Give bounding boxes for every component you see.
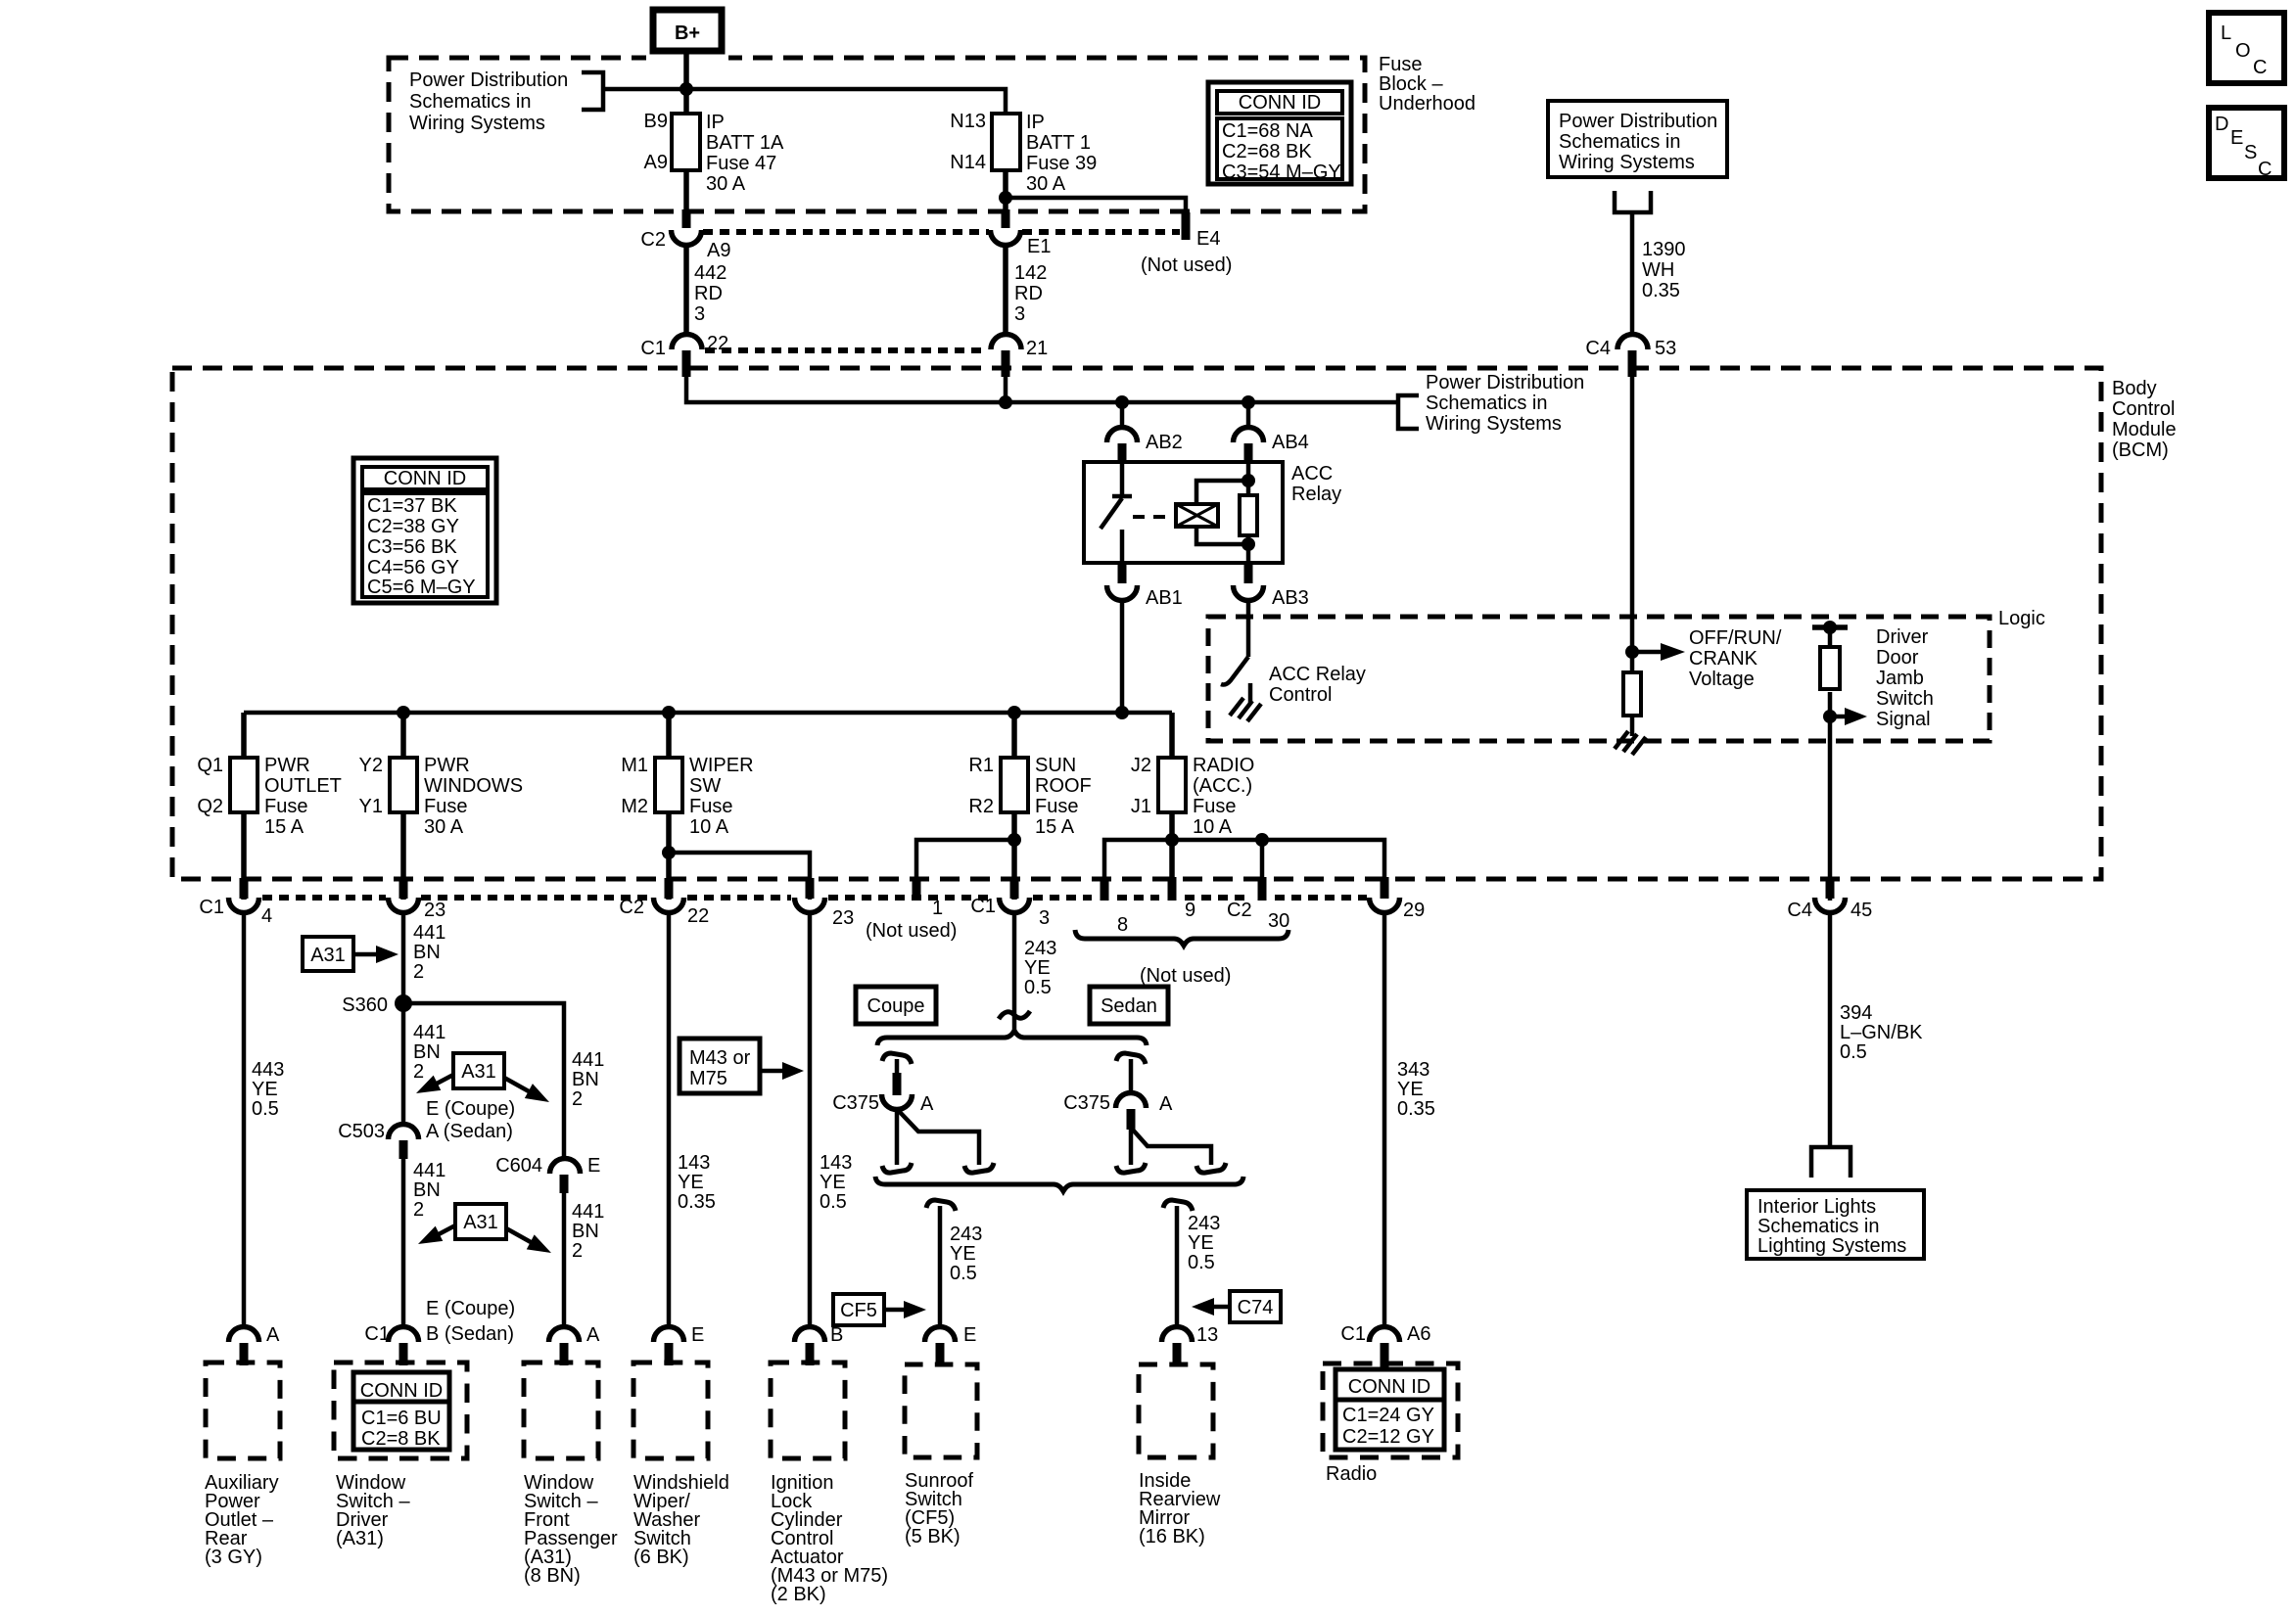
wire: coupe branch: [895, 1059, 900, 1094]
connector C1 pin 3: [970, 896, 1050, 929]
svg-text:CF5: CF5: [840, 1300, 877, 1321]
pin stub C4/45: [1826, 878, 1835, 899]
svg-text:(6 BK): (6 BK): [633, 1547, 689, 1568]
pin stub AB3: [1244, 563, 1253, 583]
fuse: WIPER SW 10 A: [621, 755, 753, 838]
svg-text:343: 343: [1397, 1059, 1429, 1081]
connector pin B (ignition actuator): [794, 1324, 843, 1346]
wire: B+ down to fuse 47: [683, 51, 689, 114]
svg-text:C1: C1: [640, 338, 666, 359]
svg-text:9: 9: [1185, 900, 1195, 921]
svg-text:YE: YE: [820, 1172, 846, 1193]
CF5 reference box with arrow: [833, 1294, 926, 1325]
svg-text:2: 2: [413, 1199, 424, 1221]
svg-text:C2: C2: [619, 897, 644, 918]
svg-text:C375: C375: [1063, 1092, 1110, 1114]
svg-text:0.5: 0.5: [950, 1263, 977, 1284]
svg-text:J2: J2: [1131, 755, 1151, 776]
node: sunroof branch junction: [1007, 833, 1021, 847]
LOC legend box: [2209, 13, 2284, 83]
arrow: driver door jamb switch signal: [1830, 708, 1867, 725]
pin stub 29: [1381, 877, 1389, 899]
svg-text:Power Distribution: Power Distribution: [1559, 111, 1717, 132]
svg-text:C2=8 BK: C2=8 BK: [361, 1428, 441, 1450]
wire: bus to AB2: [1120, 402, 1125, 430]
svg-text:M2: M2: [621, 796, 648, 817]
wire 441 BN 2 (driver switch): [403, 1155, 445, 1328]
label: body control module (BCM): [2112, 378, 2177, 461]
svg-text:AB3: AB3: [1272, 587, 1309, 609]
node: off/run/crank tap: [1625, 645, 1639, 659]
svg-text:C2=68 BK: C2=68 BK: [1222, 141, 1312, 162]
svg-text:(A31): (A31): [336, 1528, 384, 1549]
body control module dashed border: [172, 368, 2101, 879]
svg-text:A31: A31: [310, 945, 346, 966]
svg-text:30 A: 30 A: [1026, 173, 1066, 195]
svg-text:B+: B+: [675, 23, 700, 44]
svg-text:(8 BN): (8 BN): [524, 1565, 581, 1587]
svg-text:ACC Relay: ACC Relay: [1269, 664, 1366, 685]
svg-text:Signal: Signal: [1876, 709, 1931, 730]
svg-text:Fuse 39: Fuse 39: [1026, 153, 1097, 174]
svg-text:C4: C4: [1787, 900, 1812, 921]
ACC relay control switch blade: [1221, 657, 1248, 685]
svg-text:YE: YE: [678, 1172, 704, 1193]
svg-text:Block –: Block –: [1379, 73, 1443, 95]
sunroof switch (coupe): common leg: [895, 1109, 900, 1165]
svg-text:Fuse: Fuse: [1379, 54, 1422, 75]
svg-text:Fuse: Fuse: [1193, 796, 1236, 817]
svg-text:Coupe: Coupe: [867, 995, 925, 1017]
logic dashed box: [1208, 617, 1990, 741]
svg-text:Power Distribution: Power Distribution: [409, 69, 568, 91]
pin stub AB2: [1118, 443, 1127, 463]
svg-text:J1: J1: [1131, 796, 1151, 817]
svg-text:15 A: 15 A: [1035, 816, 1075, 838]
pin stub AB4: [1244, 443, 1253, 463]
pin stub E1: [1002, 209, 1010, 228]
svg-text:YE: YE: [1397, 1079, 1424, 1100]
svg-text:A: A: [920, 1093, 934, 1115]
svg-text:441: 441: [572, 1201, 604, 1223]
dotted connector pitch line C2-E1-E4: [703, 229, 989, 235]
svg-text:Fuse: Fuse: [1035, 796, 1078, 817]
fuse 47: IP BATT 1A 30 A: [644, 111, 784, 195]
svg-text:(ACC.): (ACC.): [1193, 775, 1252, 797]
connector C375 pin A (coupe): [832, 1092, 934, 1115]
relay resistor: [1240, 495, 1257, 535]
svg-text:C74: C74: [1238, 1297, 1274, 1318]
svg-text:(BCM): (BCM): [2112, 439, 2169, 461]
wire: bus down to RADIO fuse: [1169, 713, 1175, 758]
svg-text:Wiring Systems: Wiring Systems: [409, 113, 545, 134]
svg-text:441: 441: [572, 1049, 604, 1071]
svg-text:B (Sedan): B (Sedan): [426, 1323, 514, 1345]
svg-text:CONN ID: CONN ID: [1348, 1376, 1430, 1398]
fuse block - underhood dashed border: [389, 58, 1365, 211]
svg-text:C: C: [2253, 57, 2267, 78]
wire 442 RD 3: [686, 246, 726, 336]
wire 243 YE 0.5 to inside rearview mirror: [1177, 1206, 1220, 1328]
svg-text:13: 13: [1196, 1324, 1218, 1346]
node: bus junction AB4: [1242, 395, 1255, 409]
node: fuse 39 output junction to E4: [999, 191, 1012, 205]
pin stub E4: [1182, 212, 1191, 240]
node: B+ feed junction: [679, 82, 693, 96]
svg-text:3: 3: [1014, 303, 1025, 325]
svg-text:243: 243: [1188, 1213, 1220, 1234]
wire 441 BN 2 (right branch): [572, 1049, 604, 1110]
svg-text:23: 23: [832, 907, 854, 929]
svg-text:0.5: 0.5: [252, 1098, 279, 1120]
connector C503: [338, 1121, 418, 1142]
svg-text:CONN ID: CONN ID: [1239, 92, 1321, 114]
label: E4 (not used): [1141, 228, 1232, 276]
svg-text:D: D: [2215, 114, 2228, 135]
svg-text:443: 443: [252, 1059, 284, 1081]
svg-text:Q2: Q2: [197, 796, 223, 817]
svg-text:30 A: 30 A: [424, 816, 464, 838]
svg-text:0.35: 0.35: [1642, 280, 1680, 301]
svg-text:C5=6 M–GY: C5=6 M–GY: [367, 577, 476, 598]
svg-text:YE: YE: [252, 1079, 278, 1100]
wire: coil top link: [1196, 481, 1248, 504]
svg-text:3: 3: [694, 303, 705, 325]
node: door jamb signal tap: [1823, 710, 1837, 723]
svg-text:A: A: [586, 1324, 600, 1346]
svg-text:AB2: AB2: [1146, 432, 1183, 453]
pin stub ignition actuator: [806, 1343, 815, 1365]
svg-text:C2: C2: [1227, 900, 1252, 921]
svg-text:30: 30: [1268, 910, 1289, 932]
svg-text:N14: N14: [950, 152, 986, 173]
connector E1: [991, 230, 1052, 257]
dotted pitch line 3-8-9-30-29: [1033, 895, 1092, 901]
svg-text:2: 2: [572, 1240, 583, 1262]
splice tick (mirror leg top): [1163, 1200, 1193, 1211]
connector C604: [495, 1155, 600, 1177]
relay switch blade: [1101, 498, 1122, 529]
svg-text:(2 BK): (2 BK): [771, 1584, 826, 1605]
relay mechanical link (dashed): [1133, 515, 1174, 519]
off-page bracket: power distribution schematics (top left): [582, 72, 603, 110]
svg-text:2: 2: [413, 961, 424, 983]
dotted pitch line 22 to 23: [687, 895, 791, 901]
connector pin 23 (ignition): [794, 898, 854, 929]
svg-text:Underhood: Underhood: [1379, 93, 1476, 115]
svg-text:(5 BK): (5 BK): [905, 1526, 961, 1548]
A31 reference box with two arrows (lower): [414, 1204, 555, 1261]
svg-text:441: 441: [413, 922, 445, 944]
svg-text:C1=6 BU: C1=6 BU: [361, 1408, 442, 1429]
svg-text:Wiring Systems: Wiring Systems: [1426, 413, 1562, 435]
svg-text:YE: YE: [1188, 1232, 1214, 1254]
svg-text:Fuse: Fuse: [424, 796, 467, 817]
connector pin A (aux outlet): [229, 1324, 281, 1346]
svg-text:Switch: Switch: [1876, 688, 1934, 710]
splice tick (sedan branch top): [1116, 1053, 1146, 1064]
wire 143 YE 0.35 (windshield wiper/washer switch): [669, 913, 716, 1328]
power distribution schematics reference box (top right): [1548, 101, 1727, 177]
svg-text:C1=68 NA: C1=68 NA: [1222, 120, 1313, 142]
pin stub 1 (not used): [913, 877, 921, 900]
svg-text:C1=24 GY: C1=24 GY: [1342, 1405, 1434, 1426]
wire 243 YE 0.5 (sunroof feed): [1014, 913, 1056, 1031]
svg-text:C2=12 GY: C2=12 GY: [1342, 1426, 1434, 1448]
battery feed B+ terminal box: [646, 10, 728, 65]
svg-text:O: O: [2235, 40, 2251, 62]
wire 443 YE 0.5 (aux power outlet): [244, 913, 284, 1328]
node: branch junction 30: [1255, 833, 1269, 847]
svg-text:C503: C503: [338, 1121, 385, 1142]
component: window switch - driver with conn id: [334, 1363, 467, 1549]
svg-text:R1: R1: [968, 755, 994, 776]
sunroof switch (coupe): blade to output: [897, 1109, 979, 1165]
relay switch lower contact: [1120, 530, 1125, 563]
svg-text:BN: BN: [572, 1221, 599, 1242]
svg-text:Jamb: Jamb: [1876, 668, 1924, 689]
svg-text:M43 or: M43 or: [689, 1047, 751, 1069]
svg-text:SW: SW: [689, 775, 721, 797]
svg-text:S: S: [2244, 142, 2257, 163]
svg-text:Driver: Driver: [1876, 626, 1929, 648]
svg-text:C4: C4: [1585, 338, 1611, 359]
label: ACC Relay Control: [1269, 664, 1366, 706]
connector C1 pin B (Sedan): [364, 1323, 514, 1345]
Coupe variant box: [856, 987, 936, 1024]
svg-text:WH: WH: [1642, 259, 1674, 281]
label: OFF/RUN/CRANK Voltage: [1689, 627, 1782, 690]
dotted connector pitch line 22-21: [705, 347, 988, 353]
relay coil (solid-state box with X): [1176, 504, 1218, 527]
wire: WIPER SW fuse output: [666, 812, 672, 900]
connector AB3: [1234, 585, 1309, 609]
pin stub wiper switch: [665, 1343, 674, 1365]
svg-text:C1=37 BK: C1=37 BK: [367, 495, 457, 517]
pin stub 21: [1002, 350, 1010, 377]
svg-text:3: 3: [1039, 907, 1050, 929]
pin stub sunroof switch: [936, 1343, 945, 1365]
svg-text:S360: S360: [342, 994, 388, 1016]
component: inside rearview mirror: [1139, 1364, 1221, 1548]
svg-text:Module: Module: [2112, 419, 2177, 440]
sunroof switch (sedan): common leg: [1129, 1128, 1134, 1165]
svg-text:C2: C2: [640, 229, 666, 251]
svg-text:243: 243: [1024, 938, 1056, 959]
conn id table (fuse block): [1208, 82, 1351, 184]
svg-text:4: 4: [261, 905, 272, 927]
svg-text:Schematics in: Schematics in: [1559, 131, 1681, 153]
resistor (off/run/crank pulldown): [1623, 672, 1641, 716]
splice tick (sedan left leg bottom): [1116, 1163, 1146, 1173]
svg-text:Body: Body: [2112, 378, 2157, 399]
ACC relay control ground: [1230, 683, 1261, 721]
wire: sedan branch: [1129, 1059, 1134, 1094]
svg-text:BATT 1A: BATT 1A: [706, 132, 784, 154]
svg-text:B: B: [830, 1324, 843, 1346]
svg-text:Fuse 47: Fuse 47: [706, 153, 776, 174]
brace: pins 8 9 30 not used: [1075, 930, 1289, 946]
connector pin 29: [1370, 898, 1426, 921]
svg-text:PWR: PWR: [424, 755, 470, 776]
svg-text:BN: BN: [413, 1041, 441, 1063]
node: coil top junction: [1242, 474, 1255, 487]
connector C4 pin 45: [1787, 898, 1872, 921]
svg-text:C3=56 BK: C3=56 BK: [367, 536, 457, 558]
svg-text:R2: R2: [968, 796, 994, 817]
break squiggle on sunroof feed: [999, 1011, 1030, 1019]
wire 441 BN 2 (window switch driver): [403, 913, 445, 1126]
connector C4 pin 53: [1585, 335, 1676, 360]
pin stub 23: [399, 878, 408, 899]
pin stub C1/4: [240, 878, 249, 899]
conn id table (BCM): [353, 458, 496, 603]
svg-text:Y2: Y2: [359, 755, 383, 776]
wire: resistor to AB3: [1246, 535, 1251, 563]
svg-text:Schematics in: Schematics in: [1426, 393, 1548, 414]
svg-text:(16 BK): (16 BK): [1139, 1526, 1205, 1548]
svg-text:OUTLET: OUTLET: [264, 775, 342, 797]
pin stub 22: [682, 350, 691, 377]
wire 143 YE 0.5 (ignition lock actuator): [810, 913, 852, 1328]
svg-text:E1: E1: [1027, 236, 1051, 257]
node: bus junction at 21: [999, 395, 1012, 409]
A31 reference box with arrow: [303, 937, 398, 971]
svg-text:(Not used): (Not used): [866, 920, 957, 942]
wire: bus down to SUN ROOF fuse: [1011, 713, 1017, 758]
svg-text:C2=38 GY: C2=38 GY: [367, 516, 459, 537]
fuse: PWR OUTLET 15 A: [197, 755, 342, 838]
svg-text:Lighting Systems: Lighting Systems: [1757, 1235, 1906, 1257]
wire: branch to pin 1 (not used): [916, 840, 1014, 877]
pin stub A: [240, 1343, 249, 1365]
svg-text:L–GN/BK: L–GN/BK: [1840, 1022, 1923, 1043]
svg-text:YE: YE: [1024, 957, 1051, 979]
dotted pitch line 23 to C2/22: [421, 895, 650, 901]
svg-text:0.5: 0.5: [1188, 1252, 1215, 1273]
label: Driver Door Jamb Switch Signal: [1876, 626, 1934, 730]
connector C1 pin 22: [640, 333, 728, 359]
resistor (door jamb pullup): [1820, 647, 1840, 689]
svg-text:BATT 1: BATT 1: [1026, 132, 1091, 154]
A31 reference box with two arrows: [412, 1053, 553, 1109]
svg-text:ACC: ACC: [1291, 463, 1333, 485]
svg-text:Relay: Relay: [1291, 484, 1341, 505]
relay switch upper contact: [1112, 462, 1132, 496]
svg-text:A (Sedan): A (Sedan): [426, 1121, 513, 1142]
labels: pins 8 9 C2 30: [1117, 900, 1289, 936]
svg-text:0.5: 0.5: [820, 1191, 847, 1213]
svg-text:C: C: [2258, 159, 2272, 180]
svg-text:AB4: AB4: [1272, 432, 1309, 453]
svg-text:23: 23: [424, 900, 445, 921]
svg-text:CONN ID: CONN ID: [360, 1380, 443, 1402]
svg-text:RD: RD: [694, 283, 723, 304]
splice tick (sunroof switch leg top): [926, 1200, 956, 1211]
label: power distribution schematics in wiring systems (bus tap): [1426, 372, 1584, 435]
pin stub 53: [1628, 350, 1637, 377]
svg-text:Door: Door: [1876, 647, 1919, 669]
wire: RADIO fuse output: [1169, 812, 1175, 901]
pin stub passenger switch: [560, 1343, 569, 1365]
wire: bus down to PWR OUTLET fuse: [241, 713, 247, 758]
svg-text:C1: C1: [970, 896, 996, 917]
connector C2 pin 22: [619, 897, 709, 927]
svg-text:OFF/RUN/: OFF/RUN/: [1689, 627, 1782, 649]
fuse: RADIO (ACC.) 10 A: [1131, 755, 1254, 838]
svg-text:2: 2: [413, 1061, 424, 1083]
fuse: SUN ROOF 15 A: [968, 755, 1091, 838]
svg-text:(3 GY): (3 GY): [205, 1547, 262, 1568]
svg-text:Control: Control: [2112, 398, 2175, 420]
connector pin E (wiper switch): [654, 1324, 705, 1346]
svg-text:1: 1: [932, 898, 943, 919]
svg-text:Radio: Radio: [1326, 1463, 1377, 1485]
splice S360: [342, 994, 412, 1016]
svg-text:E (Coupe): E (Coupe): [426, 1098, 515, 1120]
svg-text:0.35: 0.35: [1397, 1098, 1435, 1120]
svg-text:A9: A9: [707, 240, 730, 261]
pin stub C604: [560, 1175, 569, 1193]
node: bus junction M fuse: [662, 706, 676, 719]
svg-text:Q1: Q1: [197, 755, 223, 776]
svg-text:A: A: [266, 1324, 280, 1346]
sunroof switch (sedan): blade to output: [1131, 1128, 1211, 1165]
off-page bracket below box: [1615, 191, 1651, 212]
svg-text:PWR: PWR: [264, 755, 310, 776]
svg-text:YE: YE: [950, 1243, 976, 1265]
pin stub C2/A9: [682, 209, 691, 228]
wire: S360 branch to C604: [403, 1003, 564, 1160]
driver door jamb internal source T: [1812, 621, 1848, 647]
pin stub 23 (ignition): [806, 878, 815, 899]
label: pin 1 (not used): [866, 898, 957, 942]
svg-text:C604: C604: [495, 1155, 542, 1177]
wire 441 BN 2 (below S360): [413, 1022, 445, 1083]
svg-text:0.5: 0.5: [1024, 977, 1052, 998]
wire: bus down to WIPER SW fuse: [666, 713, 672, 758]
wire: BCM battery bus: [686, 373, 1398, 402]
component: windshield wiper/washer switch: [633, 1363, 729, 1568]
svg-text:143: 143: [820, 1152, 852, 1174]
wire: AB4 into resistor: [1246, 462, 1251, 495]
svg-text:Wiring Systems: Wiring Systems: [1559, 152, 1695, 173]
DESC legend box: [2209, 108, 2284, 180]
label: ACC Relay: [1291, 463, 1341, 505]
wire 1390 WH 0.35: [1632, 212, 1686, 336]
pin stub C2/30 (not used): [1258, 877, 1267, 901]
pin stub C2/22: [665, 878, 674, 899]
connector AB1: [1107, 585, 1183, 609]
wire: resistor down to C4/45: [1828, 692, 1833, 901]
connector pin 13 (mirror): [1162, 1324, 1219, 1346]
wire: 21 feed into bus: [1004, 373, 1008, 402]
wire 243 YE 0.5 to sunroof switch: [940, 1206, 982, 1328]
pin stub C503: [399, 1140, 408, 1159]
svg-text:21: 21: [1026, 338, 1048, 359]
svg-text:C375: C375: [832, 1092, 879, 1114]
svg-text:10 A: 10 A: [689, 816, 729, 838]
wire: bus to AB4: [1246, 402, 1251, 430]
component: window switch - front passenger: [524, 1363, 618, 1587]
pin stub driver switch: [399, 1343, 408, 1365]
svg-text:Fuse: Fuse: [689, 796, 732, 817]
svg-text:45: 45: [1851, 900, 1872, 921]
svg-text:E: E: [587, 1155, 600, 1177]
svg-text:1390: 1390: [1642, 239, 1686, 260]
svg-text:Schematics in: Schematics in: [409, 91, 532, 113]
M43 or M75 reference box with arrow: [679, 1039, 804, 1093]
